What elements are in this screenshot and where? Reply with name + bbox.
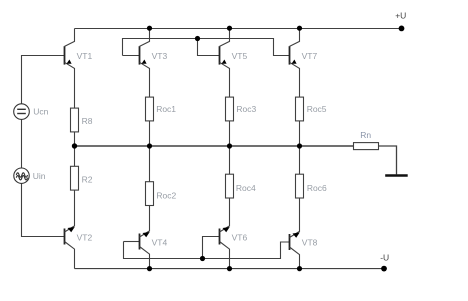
svg-text:Rn: Rn	[360, 130, 371, 140]
wire VT6 base tap	[203, 237, 220, 259]
wire top base bus VT3-VT5-VT7	[123, 39, 290, 56]
svg-text:VT3: VT3	[152, 51, 168, 61]
wire bottom base bus VT4-VT6-VT8	[124, 242, 290, 259]
svg-text:R2: R2	[82, 175, 93, 185]
junction top bus VT5 tap	[195, 36, 200, 41]
resistor Roc5	[296, 97, 304, 121]
svg-text:-U: -U	[380, 252, 389, 262]
wire mid rail to Roc2	[149, 146, 151, 182]
svg-text:VT4: VT4	[152, 238, 168, 248]
junction bottom rail col1 (VT4 collector)	[147, 266, 152, 271]
transistor VT3 (PNP top row)	[140, 29, 150, 98]
svg-text:VT1: VT1	[77, 51, 93, 61]
transistor VT7 (PNP top row)	[290, 29, 300, 98]
junction top rail col2 (VT5 collector)	[227, 26, 232, 31]
svg-text:Roc4: Roc4	[236, 183, 256, 193]
junction bottom rail col3 (VT8 collector)	[297, 266, 302, 271]
svg-text:Uin: Uin	[33, 171, 46, 181]
wire Roc5 to mid rail	[299, 121, 301, 146]
junction bottom rail col2 (VT6 collector)	[227, 266, 232, 271]
svg-text:Ucn: Ucn	[33, 107, 48, 117]
wire VT3 base stub	[123, 55, 140, 57]
wire VT4 base stub	[124, 241, 140, 243]
junction mid rail col1	[147, 143, 152, 148]
wire mid rail to Roc4	[229, 146, 231, 174]
resistor Roc3	[226, 97, 234, 121]
wire mid rail to R2	[74, 146, 76, 166]
wire -U bottom rail	[75, 268, 385, 270]
svg-text:+U: +U	[395, 10, 406, 20]
wire VT1 base from sources	[22, 56, 65, 104]
transistor VT4 (bottom row)	[140, 206, 150, 269]
terminal +U	[399, 26, 405, 32]
svg-text:VT7: VT7	[302, 51, 318, 61]
svg-text:VT8: VT8	[302, 238, 318, 248]
transistor VT5 (PNP top row)	[220, 29, 230, 98]
transistor VT8 (bottom row)	[290, 198, 300, 269]
wire R8 to mid rail	[74, 132, 76, 146]
svg-text:VT5: VT5	[232, 51, 248, 61]
junction top rail col1 (VT3 collector)	[147, 26, 152, 31]
wire mid rail to Roc6	[299, 146, 301, 174]
resistor Roc1	[146, 97, 154, 121]
wire mid rail (output node)	[75, 145, 354, 147]
transistor VT6 (bottom row)	[220, 198, 230, 269]
transistor VT2 (bottom row)	[65, 190, 75, 269]
resistor Rn	[354, 143, 379, 150]
wire Roc1 to mid rail	[149, 121, 151, 146]
resistor Roc6	[296, 174, 304, 198]
transistor VT1 (PNP top row)	[65, 29, 75, 109]
source Uin (AC input source)	[14, 168, 29, 183]
wire +U top rail	[75, 28, 402, 30]
resistor Roc2	[146, 182, 154, 206]
wire VT5 base tap	[198, 39, 220, 56]
junction bottom bus VT6 tap	[200, 256, 205, 261]
svg-text:Roc2: Roc2	[156, 190, 176, 200]
svg-text:VT2: VT2	[77, 232, 93, 242]
svg-text:R8: R8	[82, 116, 93, 126]
source Ucn (DC bias source)	[14, 104, 30, 120]
svg-text:Roc1: Roc1	[156, 104, 176, 114]
resistor R8	[71, 108, 79, 132]
resistor Roc4	[226, 174, 234, 198]
resistor R2	[71, 166, 79, 190]
svg-text:Roc3: Roc3	[236, 104, 256, 114]
ground	[385, 174, 408, 176]
svg-text:Roc6: Roc6	[307, 183, 327, 193]
wire Uin to VT2 base	[22, 183, 65, 236]
wire Roc3 to mid rail	[229, 121, 231, 146]
svg-text:Roc5: Roc5	[307, 104, 327, 114]
svg-text:VT6: VT6	[232, 232, 248, 242]
junction top rail col3 (VT7 collector)	[297, 26, 302, 31]
junction mid rail col3	[297, 143, 302, 148]
junction mid rail R8-R2 node	[72, 143, 77, 148]
wire Ucn to Uin	[21, 119, 23, 168]
junction mid rail col2	[227, 143, 232, 148]
wire Rn to ground	[379, 146, 397, 174]
terminal -U	[381, 266, 387, 272]
